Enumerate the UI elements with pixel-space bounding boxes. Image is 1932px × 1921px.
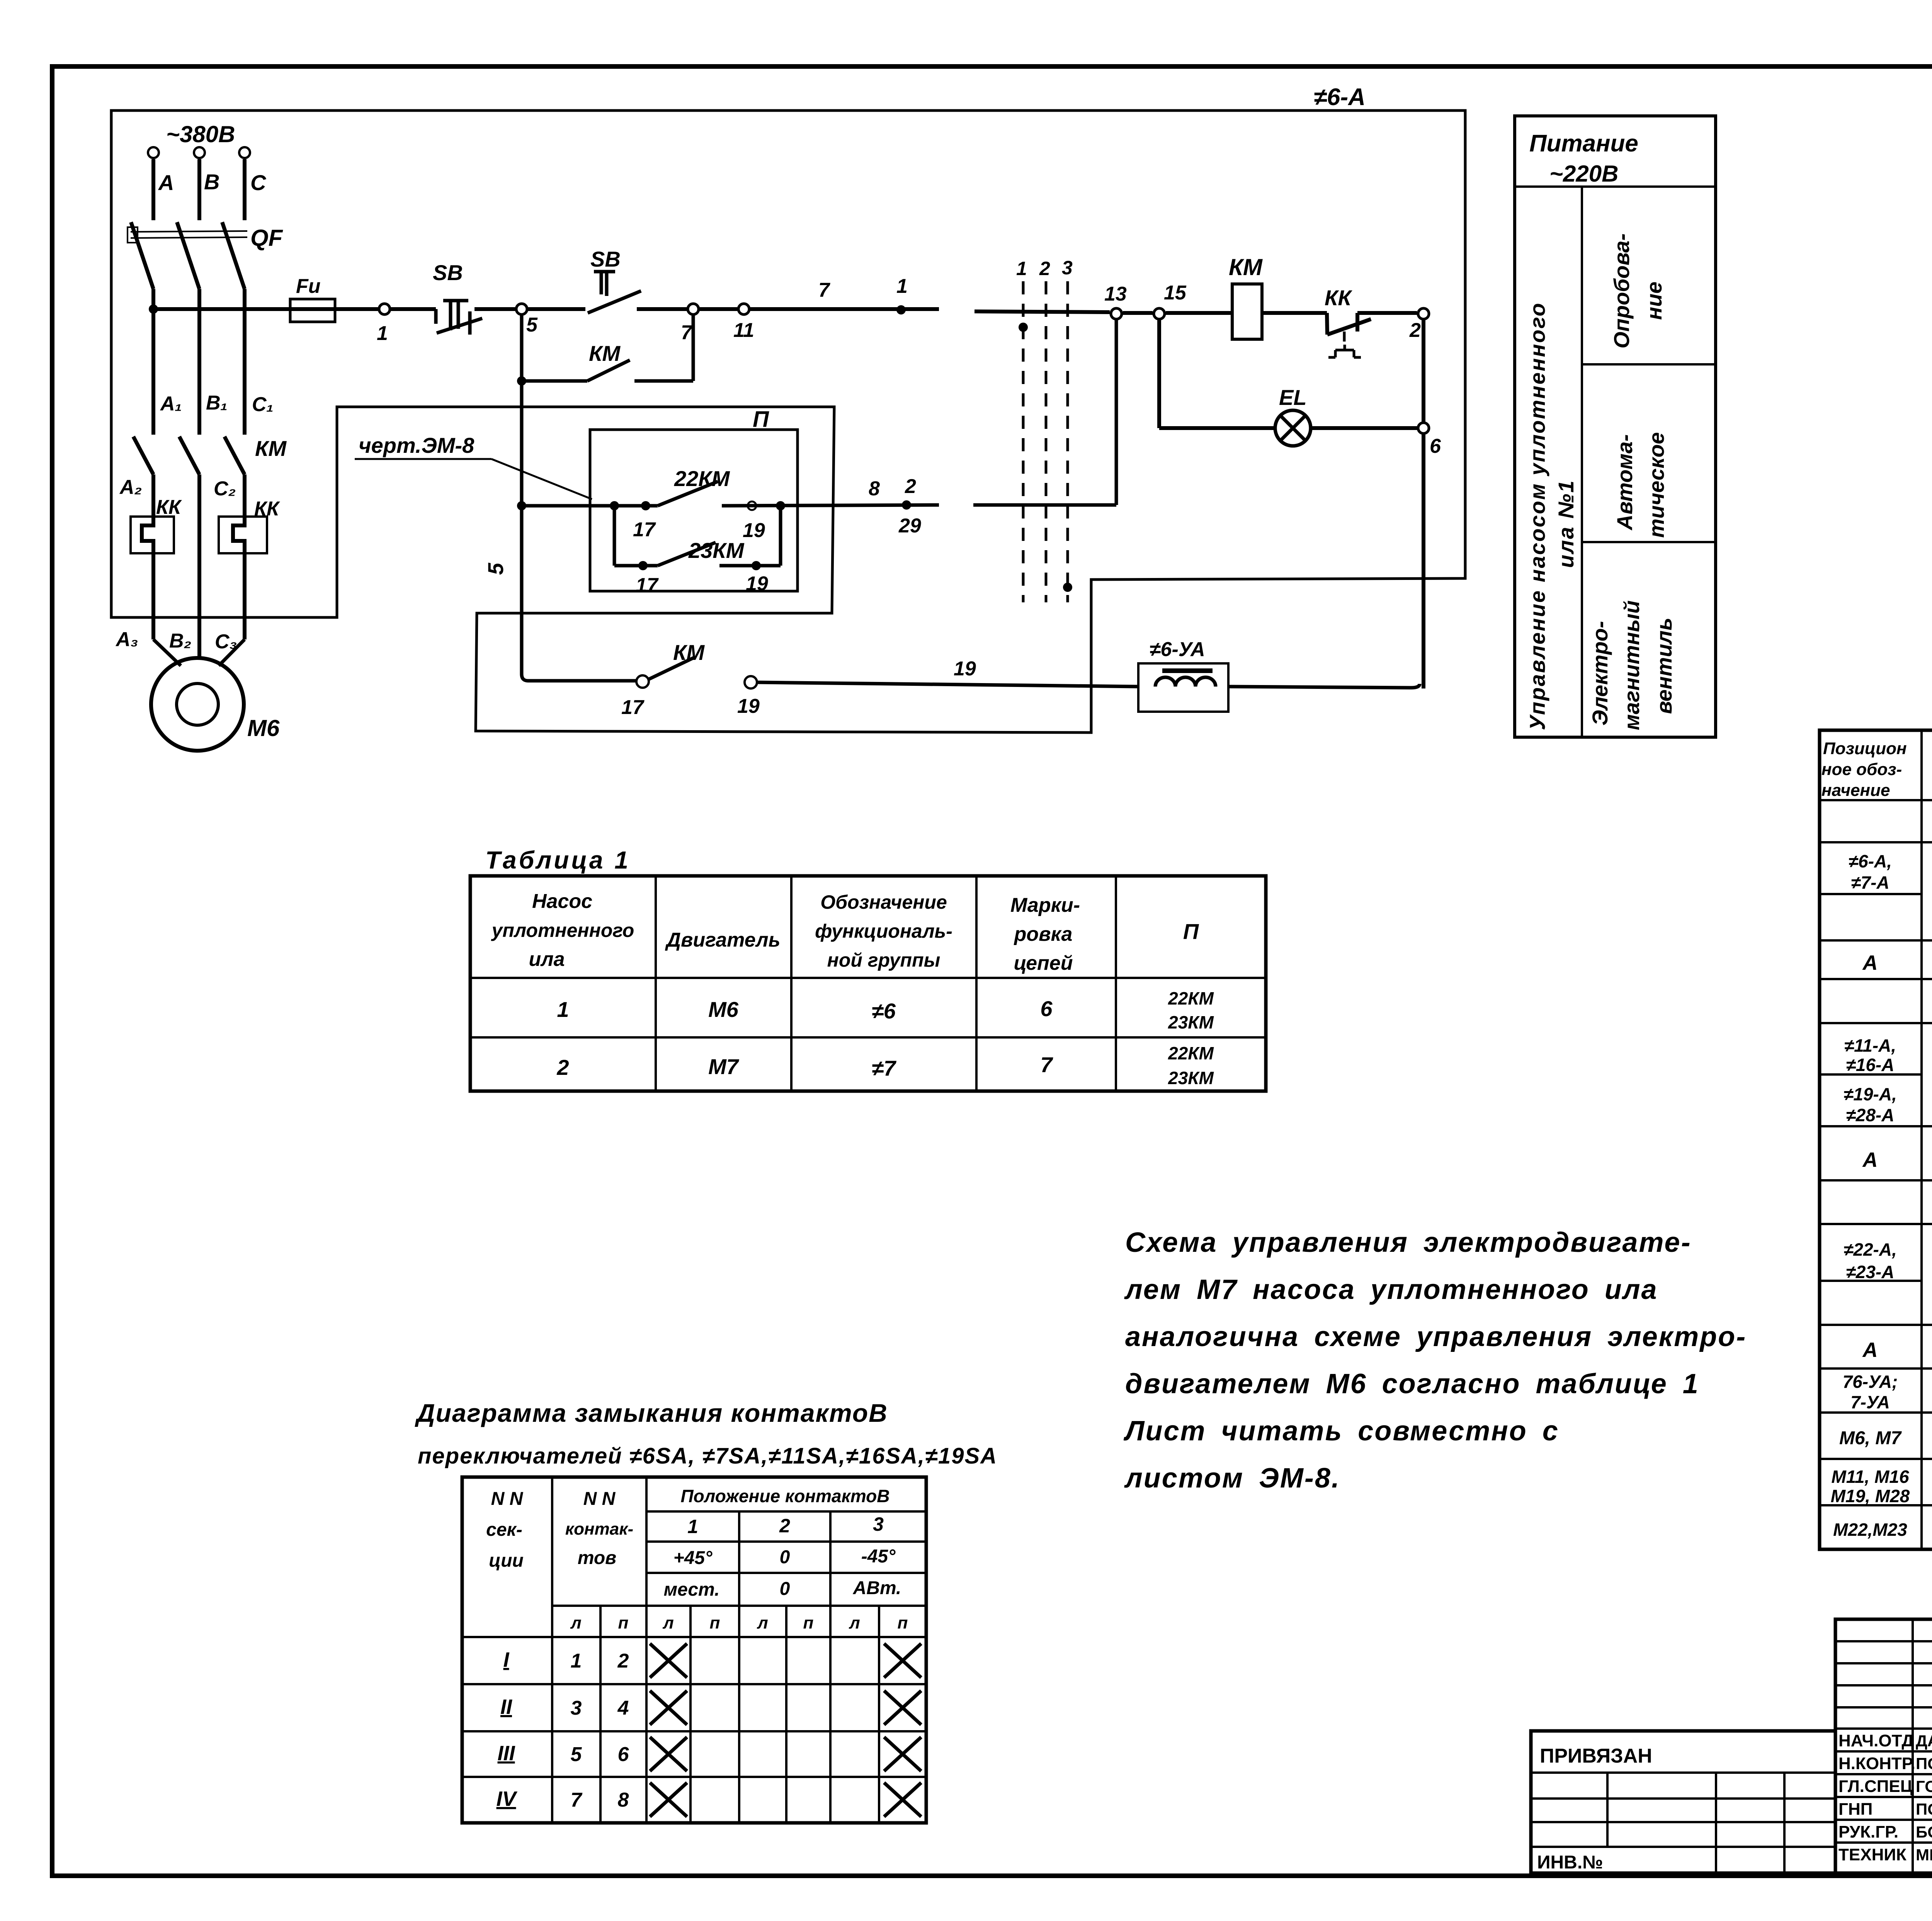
svg-text:МЕНОВЩИКОВА: МЕНОВЩИКОВА (1916, 1846, 1932, 1864)
svg-text:п: п (898, 1613, 908, 1632)
svg-text:БОЕВА: БОЕВА (1916, 1823, 1932, 1841)
svg-text:ТЕХНИК: ТЕХНИК (1838, 1845, 1906, 1864)
svg-text:аналогична схеме управления: аналогична схеме управления электро- (1125, 1321, 1747, 1352)
svg-text:2: 2 (1409, 319, 1421, 342)
svg-text:ние: ние (1642, 282, 1666, 320)
svg-text:Обозначение: Обозначение (820, 891, 947, 913)
svg-text:I: I (503, 1648, 509, 1671)
svg-text:тическое: тическое (1644, 432, 1668, 538)
svg-text:6: 6 (618, 1743, 629, 1766)
svg-text:N N: N N (583, 1489, 616, 1509)
svg-text:~380В: ~380В (166, 121, 235, 147)
svg-text:ЕL: ЕL (1279, 385, 1307, 410)
svg-text:Таблица 1: Таблица 1 (485, 846, 631, 874)
svg-text:ИНВ.№: ИНВ.№ (1537, 1852, 1603, 1873)
svg-text:черт.ЭМ-8: черт.ЭМ-8 (359, 433, 474, 457)
svg-text:Н.КОНТР.: Н.КОНТР. (1838, 1754, 1915, 1773)
svg-text:0: 0 (780, 1579, 790, 1599)
svg-text:А: А (1862, 1338, 1878, 1362)
svg-text:29: 29 (898, 515, 921, 537)
svg-text:≠6-УА: ≠6-УА (1150, 638, 1205, 661)
svg-text:АВт.: АВт. (853, 1578, 901, 1598)
svg-text:5: 5 (483, 563, 508, 575)
svg-text:двигателем М6 согласно табл: двигателем М6 согласно таблице 1 (1125, 1368, 1699, 1399)
svg-text:РУК.ГР.: РУК.ГР. (1838, 1822, 1898, 1841)
svg-text:ПОСТНИКОВА: ПОСТНИКОВА (1916, 1800, 1932, 1818)
svg-text:3: 3 (873, 1513, 884, 1535)
svg-text:ровка: ровка (1014, 923, 1073, 945)
svg-text:≠16-А: ≠16-А (1846, 1055, 1895, 1075)
svg-text:1: 1 (571, 1650, 582, 1672)
svg-text:Схема управления электродвиг: Схема управления электродвигате- (1125, 1227, 1692, 1258)
svg-text:23КМ: 23КМ (688, 538, 745, 563)
svg-text:сек-: сек- (486, 1520, 522, 1540)
svg-text:М22,М23: М22,М23 (1833, 1520, 1907, 1540)
svg-text:КК: КК (1325, 286, 1352, 310)
svg-text:А: А (158, 170, 174, 195)
svg-text:ции: ции (489, 1550, 524, 1571)
svg-text:ГОЛЬЦМАН: ГОЛЬЦМАН (1916, 1777, 1932, 1795)
svg-text:Диаграмма замыкания контактоВ: Диаграмма замыкания контактоВ (415, 1399, 888, 1427)
svg-text:С: С (250, 170, 267, 195)
svg-text:7: 7 (571, 1789, 583, 1811)
svg-text:А: А (1862, 951, 1878, 974)
svg-text:М6, М7: М6, М7 (1839, 1428, 1902, 1448)
svg-text:В₂: В₂ (169, 630, 191, 652)
svg-text:А: А (1862, 1148, 1878, 1171)
svg-text:11: 11 (733, 319, 754, 342)
svg-text:начение: начение (1821, 781, 1890, 800)
svg-text:3: 3 (1062, 257, 1073, 279)
svg-text:лем М7 насоса уплотненного: лем М7 насоса уплотненного ила (1124, 1274, 1658, 1305)
svg-text:1: 1 (557, 997, 569, 1022)
svg-text:22КМ: 22КМ (1168, 1043, 1214, 1063)
svg-text:л: л (662, 1613, 673, 1632)
svg-text:6: 6 (1430, 435, 1441, 457)
svg-text:ное обоз-: ное обоз- (1821, 760, 1902, 779)
svg-text:23КМ: 23КМ (1168, 1068, 1214, 1088)
svg-text:В₁: В₁ (206, 392, 228, 414)
svg-text:≠7-А: ≠7-А (1851, 872, 1889, 892)
svg-text:мест.: мест. (664, 1579, 720, 1600)
svg-text:КМ: КМ (589, 341, 621, 365)
svg-text:Позицион: Позицион (1823, 739, 1907, 758)
svg-text:А₃: А₃ (115, 628, 138, 651)
svg-text:М6: М6 (708, 997, 739, 1022)
svg-text:SВ: SВ (433, 260, 463, 285)
svg-text:Питание: Питание (1529, 130, 1638, 157)
svg-text:+45°: +45° (673, 1548, 713, 1568)
svg-text:≠6: ≠6 (872, 999, 896, 1023)
svg-text:ДАНИЛОВ: ДАНИЛОВ (1916, 1732, 1932, 1750)
svg-text:15: 15 (1164, 282, 1187, 304)
svg-text:7: 7 (681, 321, 693, 344)
svg-text:ила: ила (529, 948, 565, 971)
svg-text:1: 1 (687, 1516, 698, 1537)
svg-text:л: л (570, 1613, 581, 1632)
svg-text:Управление насосом уплотненног: Управление насосом уплотненного (1525, 302, 1549, 730)
svg-text:ПРИВЯЗАН: ПРИВЯЗАН (1540, 1745, 1652, 1767)
svg-text:4: 4 (617, 1697, 629, 1719)
svg-text:13: 13 (1104, 283, 1127, 305)
svg-text:5: 5 (571, 1743, 582, 1766)
svg-text:ГНП: ГНП (1838, 1800, 1872, 1819)
svg-text:19: 19 (737, 695, 760, 717)
svg-text:л: л (849, 1613, 860, 1632)
svg-text:А₁: А₁ (160, 393, 182, 415)
svg-text:Лист читать совместно с: Лист читать совместно с (1123, 1416, 1559, 1447)
svg-text:М19, М28: М19, М28 (1831, 1486, 1910, 1506)
svg-text:2: 2 (617, 1650, 629, 1672)
svg-text:8: 8 (869, 478, 880, 500)
svg-text:17: 17 (621, 696, 645, 719)
svg-text:п: п (710, 1613, 720, 1632)
svg-text:С₁: С₁ (252, 393, 274, 416)
svg-text:IV: IV (496, 1787, 517, 1810)
svg-text:2: 2 (779, 1515, 790, 1537)
svg-text:Автома-: Автома- (1612, 434, 1637, 531)
svg-text:ила №1: ила №1 (1554, 479, 1578, 568)
svg-text:Двигатель: Двигатель (665, 929, 780, 951)
svg-text:0: 0 (780, 1547, 790, 1567)
svg-text:19: 19 (746, 573, 768, 595)
svg-text:л: л (757, 1613, 768, 1632)
svg-text:-45°: -45° (861, 1546, 896, 1567)
svg-text:П: П (1183, 919, 1199, 943)
svg-text:8: 8 (618, 1789, 629, 1811)
svg-text:переключателей ≠6SА, ≠7SА,≠11S: переключателей ≠6SА, ≠7SА,≠11SА,≠16SА,≠1… (418, 1443, 997, 1469)
svg-text:7: 7 (1040, 1052, 1053, 1077)
svg-text:А₂: А₂ (119, 476, 142, 498)
svg-text:М6: М6 (247, 715, 280, 741)
svg-text:М11, М16: М11, М16 (1831, 1467, 1909, 1487)
svg-text:В: В (204, 170, 219, 194)
svg-text:≠6-А,: ≠6-А, (1849, 851, 1892, 871)
svg-text:тов: тов (578, 1548, 616, 1568)
svg-text:2: 2 (905, 475, 916, 498)
svg-text:3: 3 (571, 1697, 582, 1719)
svg-text:Опробова-: Опробова- (1609, 233, 1634, 348)
svg-text:≠28-А: ≠28-А (1846, 1105, 1895, 1125)
svg-text:цепей: цепей (1014, 952, 1073, 974)
svg-text:КМ: КМ (673, 640, 705, 665)
svg-text:п: п (618, 1613, 629, 1632)
svg-text:С₂: С₂ (214, 478, 236, 500)
svg-text:≠19-А,: ≠19-А, (1844, 1084, 1897, 1104)
svg-text:магнитный: магнитный (1619, 600, 1644, 730)
svg-text:≠11-А,: ≠11-А, (1844, 1035, 1896, 1056)
svg-text:5: 5 (526, 314, 538, 336)
svg-text:17: 17 (636, 574, 659, 597)
svg-text:ПОСТНИКОВА.: ПОСТНИКОВА. (1916, 1754, 1932, 1773)
svg-text:М7: М7 (708, 1054, 740, 1079)
svg-text:17: 17 (633, 518, 656, 541)
svg-text:Марки-: Марки- (1010, 894, 1080, 916)
svg-text:Электро-: Электро- (1588, 621, 1612, 726)
svg-text:N N: N N (491, 1489, 524, 1509)
svg-text:1: 1 (377, 322, 388, 345)
svg-text:≠6-А: ≠6-А (1314, 84, 1366, 110)
svg-text:QF: QF (250, 225, 283, 251)
svg-text:22КМ: 22КМ (674, 466, 730, 491)
svg-text:≠23-А: ≠23-А (1846, 1262, 1895, 1282)
svg-text:II: II (500, 1695, 512, 1719)
svg-text:76-УА;: 76-УА; (1843, 1372, 1898, 1392)
svg-text:функциональ-: функциональ- (815, 920, 952, 942)
svg-text:уплотненного: уплотненного (491, 920, 634, 941)
svg-text:контак-: контак- (565, 1520, 633, 1538)
svg-text:≠7: ≠7 (872, 1056, 897, 1080)
svg-text:6: 6 (1040, 996, 1053, 1021)
svg-text:НАЧ.ОТД: НАЧ.ОТД (1838, 1731, 1914, 1750)
svg-text:1: 1 (1016, 258, 1027, 279)
svg-text:23КМ: 23КМ (1168, 1012, 1214, 1032)
svg-text:Насос: Насос (532, 890, 592, 913)
svg-text:III: III (497, 1742, 515, 1765)
svg-text:7: 7 (818, 279, 830, 301)
svg-text:листом ЭМ-8.: листом ЭМ-8. (1124, 1463, 1340, 1494)
svg-text:SВ: SВ (590, 247, 621, 271)
svg-text:2: 2 (556, 1055, 569, 1079)
svg-text:≠22-А,: ≠22-А, (1844, 1239, 1897, 1260)
svg-text:7-УА: 7-УА (1850, 1392, 1890, 1412)
svg-text:19: 19 (954, 658, 976, 680)
svg-text:КМ: КМ (1229, 254, 1263, 280)
svg-text:1: 1 (896, 275, 908, 297)
svg-text:19: 19 (743, 519, 765, 542)
svg-text:Fu: Fu (296, 275, 321, 297)
svg-text:п: п (803, 1613, 814, 1632)
svg-text:КМ: КМ (255, 436, 287, 461)
svg-text:вентиль: вентиль (1652, 618, 1676, 714)
svg-text:ГЛ.СПЕЦ: ГЛ.СПЕЦ (1838, 1777, 1913, 1796)
svg-text:Положение контактоВ: Положение контактоВ (681, 1486, 890, 1506)
svg-text:22КМ: 22КМ (1168, 988, 1214, 1008)
svg-text:ной группы: ной группы (827, 949, 940, 971)
svg-text:КК: КК (156, 496, 182, 518)
svg-text:2: 2 (1039, 258, 1050, 279)
svg-text:~220В: ~220В (1549, 161, 1618, 187)
svg-text:П: П (753, 407, 769, 432)
